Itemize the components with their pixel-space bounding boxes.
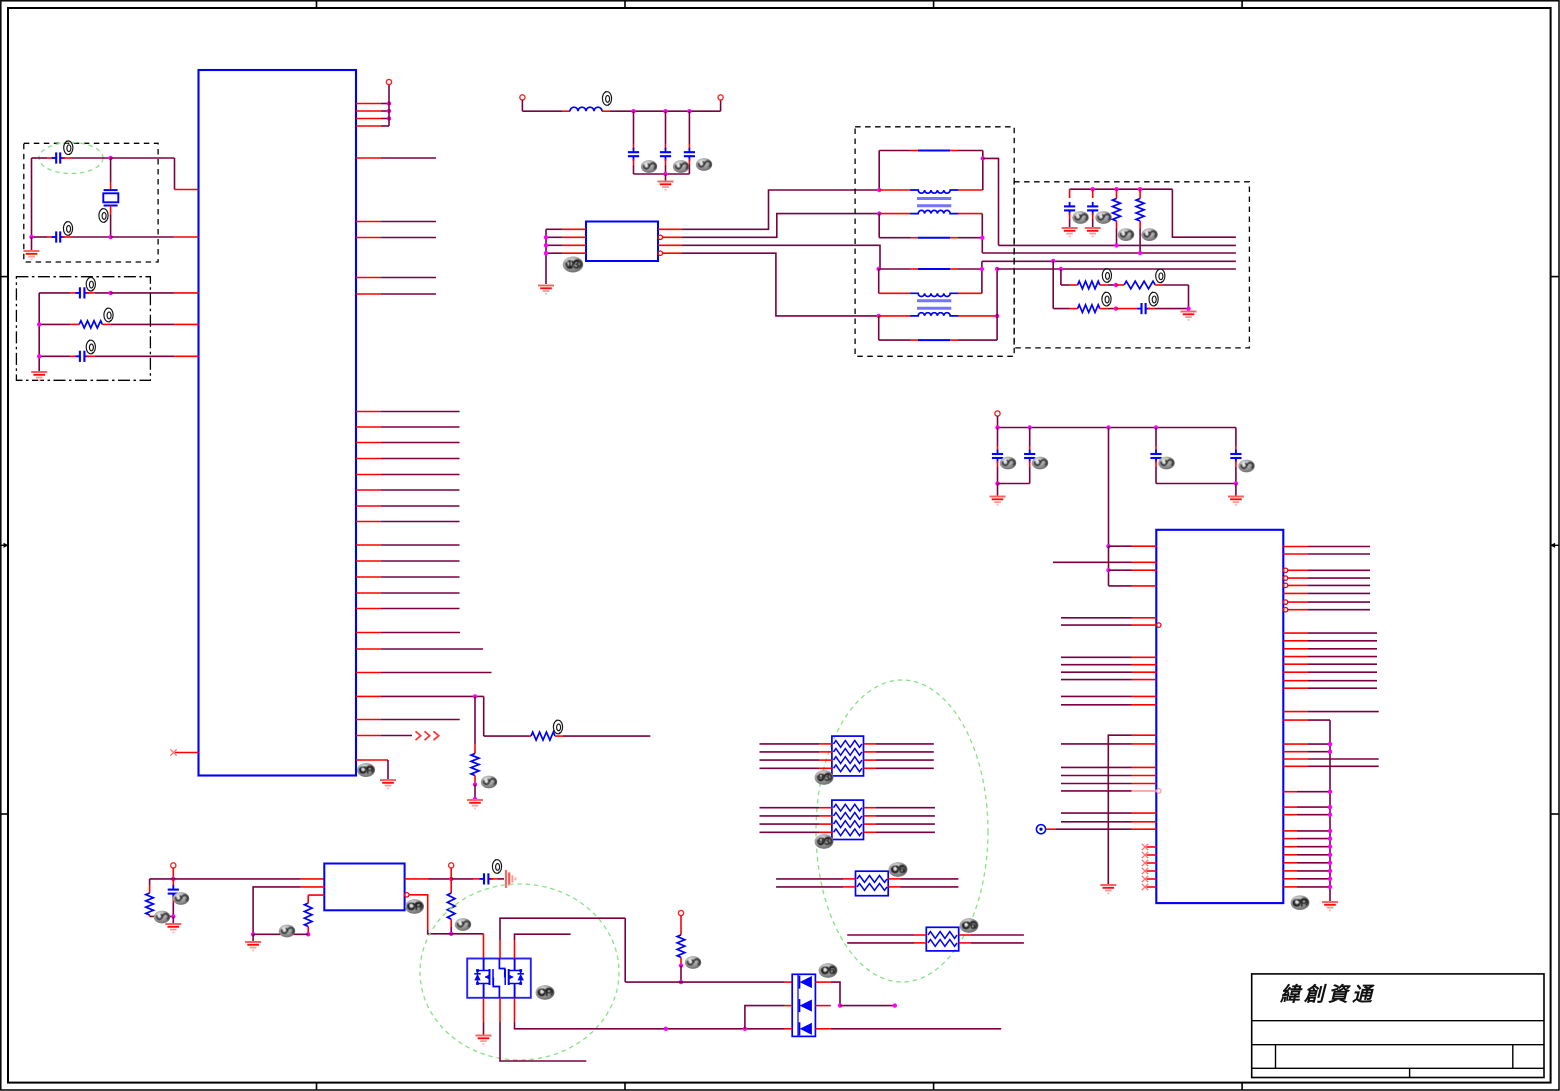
capacitor C3 (75, 287, 89, 298)
border zone ticks top (316, 1, 318, 8)
label U13 (563, 257, 584, 273)
U1 left pin row2 (158, 236, 174, 238)
U1 bottom ground pin (356, 759, 388, 761)
U13 out pin3 wire to T2 winding (658, 244, 682, 246)
label C4 (86, 340, 95, 354)
diode D2 (800, 999, 812, 1012)
U2 pin row 562 wire (1053, 561, 1132, 563)
Q1 source to ground (483, 998, 485, 1022)
label RP1 (815, 770, 834, 785)
node cap1 tap (631, 109, 635, 113)
U2 pin 735 with ground drop (1108, 735, 1131, 884)
node T1 (171, 877, 175, 881)
T2 bottom loop wire D2 (879, 339, 911, 341)
label C2 (63, 221, 72, 235)
T1 right vertical upper (982, 151, 984, 191)
RP4 elements (928, 932, 957, 939)
U30 pin2 wire to ground (301, 886, 325, 888)
node on pin wire (473, 694, 477, 698)
cap C23 (1235, 428, 1237, 447)
border center arrow right (1550, 543, 1559, 548)
node bus4 start (995, 267, 999, 271)
svg-text:C6: C6 (891, 864, 905, 876)
branch wire from T1 to bus1 (983, 158, 999, 245)
RP1 elements (834, 741, 862, 748)
label D array (819, 963, 838, 978)
U2 left pins 767-783 (1061, 766, 1132, 768)
label C22 (1158, 457, 1174, 470)
terminal P1 (386, 79, 391, 84)
capacitor C4 (75, 351, 89, 362)
node U30 gnd tie (251, 932, 255, 936)
U2 right inverted pins 602/610 (1283, 600, 1287, 604)
inductor L1 (570, 107, 602, 111)
cap C22 (1155, 428, 1157, 447)
label R (481, 776, 497, 789)
resistor pack RP4 box (926, 927, 958, 951)
drive wire mid vertical (500, 918, 625, 940)
rail nodes (995, 425, 999, 429)
output cap C31 (451, 878, 473, 880)
cap C10 (1069, 189, 1071, 198)
node R22 bottom (449, 932, 453, 936)
ground mosfet (476, 1036, 492, 1044)
svg-text:CP: CP (359, 766, 374, 777)
bus wire 2 from T1 (982, 252, 1236, 254)
Q mid below (499, 998, 501, 1022)
label R22 (455, 918, 471, 931)
resistor R20 vertical (149, 879, 151, 885)
cap C21 (1029, 428, 1031, 447)
U13 out pin4 inverted (658, 251, 662, 255)
svg-text:93: 93 (818, 836, 830, 848)
node common rail (663, 172, 667, 176)
U1 pin wire with junction to R pulldown (356, 695, 381, 697)
label CP mosfet (536, 985, 555, 1000)
U30 pin3 wire to R21 (308, 894, 324, 896)
node T2 C2 right (995, 314, 999, 318)
crystal box row2 wire (32, 236, 48, 238)
capacitor C1 (52, 152, 65, 163)
RP2 elements (834, 804, 862, 811)
crystal Y1 leads (110, 158, 112, 182)
label CP U1 (357, 763, 375, 777)
U2 right bottom group to rail (1283, 791, 1297, 793)
resistor pack RP3 box (856, 871, 889, 896)
node T1 C1 left (877, 211, 881, 215)
terminal T3 (678, 910, 683, 915)
ground C10 (1062, 228, 1078, 236)
row1 right wire (815, 981, 830, 983)
U1 left pin from crystal row1 (jog) (174, 158, 176, 190)
T2 winding C2 (879, 315, 911, 317)
wire jog to series resistor (483, 696, 485, 736)
U2 left pin 791 faded bubble (1061, 790, 1132, 792)
T1 strap A1 (918, 150, 950, 152)
label R11 (1141, 228, 1157, 241)
node below resistor (473, 782, 477, 786)
U1 right pins lower (356, 632, 381, 634)
series resistor R horizontal (531, 732, 555, 740)
cap C5 leg (633, 111, 635, 144)
node cap3 tap (687, 109, 691, 113)
wire vertical to terminal (388, 85, 390, 127)
crystal circuit dashed box (24, 143, 158, 262)
row1 right corner down (1188, 285, 1190, 309)
node R23 bottom (679, 963, 683, 967)
dead-end stub wire (515, 934, 571, 940)
node R10 to bus1 (1114, 243, 1118, 247)
label C12 (1149, 292, 1158, 306)
label R12 (1102, 268, 1111, 282)
node C23 bottom (1234, 481, 1238, 485)
feed bus3 to lower row2 (1052, 261, 1054, 309)
cap C6 leg (665, 111, 667, 144)
T1 right vertical lower (981, 214, 983, 253)
cap C12 horizontal (1137, 303, 1150, 314)
feed bus4 to lower row1 (1060, 269, 1062, 285)
U30 output wire (405, 878, 429, 880)
node feed pin3 (1106, 568, 1110, 572)
gate interconnect (493, 959, 505, 998)
row2 right wire (815, 1005, 830, 1007)
ground termination (1181, 312, 1197, 320)
label R series (553, 720, 562, 734)
U2 left NC pins (1147, 846, 1157, 848)
T1 left vertical upper (878, 151, 880, 191)
node RC row1 (108, 291, 112, 295)
svg-text:C6: C6 (962, 920, 976, 932)
T1 winding B1 (879, 189, 910, 191)
cap C20 (997, 428, 999, 447)
green highlight ellipse packs (816, 680, 988, 982)
node R21 bottom (306, 932, 310, 936)
resistor R pulldown at U1 output (474, 696, 476, 744)
svg-text:CP: CP (407, 901, 422, 913)
border center arrow left (1, 543, 9, 548)
ground below resistor (467, 800, 483, 808)
label R21 (279, 925, 295, 938)
rail nodes (1091, 187, 1095, 191)
resistor R11 (1139, 189, 1141, 198)
diode D3 (800, 1022, 812, 1035)
R21 tie to ground rail (253, 933, 308, 935)
node diode row2 right (838, 1003, 842, 1007)
svg-text:CP: CP (1292, 897, 1307, 909)
T1 winding C1 (879, 213, 910, 215)
diode D1 (800, 976, 812, 989)
Q right below to diode row3 (514, 998, 516, 1022)
node at ground (473, 797, 477, 801)
resistor R2 horizontal (79, 321, 102, 328)
IC U2 body (1156, 530, 1283, 903)
caps bottom tie wire right (1156, 483, 1236, 485)
row3 right wire (831, 1028, 1001, 1030)
U1 pin wire 719 (356, 719, 381, 721)
U2 left pin group 657-685 (1061, 656, 1132, 658)
node row3 b (743, 1027, 747, 1031)
mosfet pair box Q1 (467, 959, 531, 998)
label C6 (673, 160, 689, 173)
node output (449, 877, 453, 881)
T2 top loop wire A2 (879, 268, 911, 270)
node row2 (108, 235, 112, 239)
node row3 a (664, 1027, 668, 1031)
U2 power pin 1 (1106, 544, 1110, 548)
input rail wire (150, 878, 301, 880)
U1 left NC pin (175, 752, 199, 754)
label R13 (1156, 269, 1165, 283)
T1 core (917, 197, 951, 200)
label C3 (86, 277, 95, 291)
RP2 wires (760, 807, 820, 809)
label RP2 (815, 834, 834, 849)
U2 feed corner pin4 (1109, 585, 1132, 587)
ground collector rail (1322, 902, 1338, 910)
label RP4 (960, 918, 979, 933)
cap C30 (172, 879, 174, 887)
resistor pack RP1 box (832, 736, 864, 776)
label C30 (173, 892, 189, 905)
ground RC box (31, 372, 47, 380)
T2 right vertical (996, 269, 998, 340)
label R20 (154, 911, 170, 924)
node C30 bottom (171, 914, 175, 918)
terminal T2 (449, 863, 454, 868)
inverted bubble pin 625 (1157, 623, 1161, 627)
U13 left rail (545, 229, 547, 284)
RC row1 wire (39, 292, 70, 294)
label RP3 (889, 862, 908, 877)
row3 stubs (785, 1028, 793, 1030)
IC U1 body (199, 70, 357, 776)
U1 right pins middle group (356, 411, 381, 413)
green highlight ellipse mosfet area (420, 884, 619, 1060)
U2 pin row 570 (1109, 569, 1132, 571)
U2 right inverted pins (1283, 568, 1287, 572)
label L1 (602, 91, 611, 105)
resistor R10 (1116, 189, 1118, 198)
ground sideways (506, 870, 515, 888)
wire from ring to U2 (1046, 828, 1056, 830)
ground C11 (1085, 228, 1101, 236)
node row2 mid (1114, 306, 1118, 310)
resistor R13 (1124, 281, 1155, 289)
terminal J3 right (720, 100, 722, 111)
label Y1 (99, 208, 108, 222)
U1 left pins from RC box (150, 292, 174, 294)
svg-text:13: 13 (566, 258, 580, 272)
feedback wire (409, 895, 428, 930)
node row2 right (1186, 306, 1190, 310)
node bus3 tap (1051, 259, 1055, 263)
label R14 (1102, 292, 1111, 306)
RC filter dashed box (16, 277, 150, 381)
IC U13 body (586, 222, 658, 262)
U2 right pins 759/766 crossing (1283, 758, 1308, 760)
crystal Y1 body (103, 190, 118, 205)
node T1 D1 right (980, 236, 984, 240)
ground U13 rail (538, 286, 554, 294)
connector ring terminal (1036, 825, 1045, 834)
bus wire 4 (997, 268, 1236, 270)
diode row1 wire (624, 918, 626, 982)
node T1 B1 left (877, 188, 881, 192)
collector rail vertical (1329, 720, 1331, 901)
cap C11 (1092, 189, 1094, 198)
node bus4 tap (1059, 267, 1063, 271)
U2 left pins 813/822 (1061, 812, 1132, 814)
resistor pack RP2 box (832, 800, 864, 839)
T2 strap D2 (918, 339, 950, 341)
mosfet Q1a (483, 959, 485, 998)
label R23 (685, 956, 701, 969)
label C20 (1000, 457, 1016, 470)
row2 left wire (785, 1005, 793, 1007)
ground power left (990, 497, 1006, 505)
termination top rail (1070, 188, 1173, 190)
U2 right pin 720 to collector rail (1283, 719, 1308, 721)
power feed down to U2 (1108, 428, 1110, 547)
T2 strap A2 (918, 268, 950, 270)
RC row3 wire (39, 355, 70, 357)
signal chevrons >>> (416, 731, 439, 740)
lower row2 wire (1053, 308, 1069, 310)
U1 right pins upper singles (356, 157, 381, 159)
R20 bottom tie (150, 915, 174, 917)
caps common rail (634, 173, 690, 175)
border zone ticks bottom (316, 1083, 318, 1090)
label C23 (1238, 460, 1254, 473)
ground under U1 pin (380, 780, 396, 788)
node RC rail row3 (37, 354, 41, 358)
bus wire 3 (982, 260, 1236, 262)
node dots on terminal drop (387, 101, 391, 105)
U13 left pins (562, 228, 586, 230)
left rail of crystal box (31, 158, 33, 237)
gate drive wire (451, 933, 483, 935)
node on diode row1 (679, 980, 683, 984)
RC row2 wire (39, 323, 70, 325)
label CP U30 (405, 899, 424, 914)
node RC rail row2 (37, 322, 41, 326)
green highlight ellipse on C1 (39, 143, 103, 174)
label R2 (104, 308, 113, 322)
T1 bottom loop wire D1 (879, 237, 910, 239)
svg-text:C6: C6 (821, 965, 835, 977)
T1 strap D1 (918, 237, 950, 239)
U2 left pin 744 (1061, 743, 1132, 745)
ground U30 (245, 942, 261, 950)
magnetics dashed box (855, 127, 1014, 356)
node T2 A2 left (877, 267, 881, 271)
resistor R22 on output (450, 879, 452, 893)
cap C7 leg (688, 111, 690, 144)
RC box left rail (38, 293, 40, 371)
label R10 (1118, 228, 1134, 241)
U30 feedback pin inverted (405, 893, 409, 897)
capacitor C2 (52, 231, 65, 242)
resistor R14 (1078, 305, 1100, 313)
U2 right pins 744/752 (1283, 743, 1308, 745)
U2 left pins 696/705 (1061, 695, 1132, 697)
U13 out pin2 inverted (658, 235, 662, 239)
title block row lines (1252, 1021, 1544, 1078)
IC U30 body (324, 864, 404, 911)
T2 left vertical lower (878, 316, 880, 340)
power rail wire (998, 427, 1236, 429)
label C7 (696, 158, 712, 171)
U2 right pin 711 (1283, 711, 1308, 713)
U2 right middle group (1283, 632, 1308, 634)
ground crystal box (24, 251, 40, 259)
T2 right vertical upper (981, 261, 983, 293)
label C10 (1072, 211, 1088, 224)
T1 left vertical lower (878, 214, 880, 238)
termination dashed box (1014, 182, 1249, 348)
svg-text:CP: CP (537, 987, 552, 999)
ground filter caps (658, 182, 674, 190)
ground C30 (165, 924, 181, 932)
U2 right pins top (1283, 546, 1308, 548)
caps bottom tie wire (998, 483, 1030, 485)
U1 top-right pin stubs to power terminal (356, 103, 381, 105)
lower row1 wire (1061, 284, 1070, 286)
label C21 (1032, 457, 1048, 470)
U2 left pins 617/625 (1061, 617, 1132, 619)
T2 core (917, 299, 951, 302)
resistor R23 (677, 935, 685, 958)
node T1 right branch (981, 156, 985, 160)
label C1 (64, 141, 73, 155)
terminal J2 left (520, 95, 525, 100)
RP3 wires (776, 878, 843, 880)
diode array box (792, 974, 815, 1036)
terminal T1 (171, 863, 176, 868)
RP1 wires (760, 743, 820, 745)
border zone ticks right (1551, 276, 1559, 278)
node row2 end (893, 1003, 897, 1007)
node T2 C2 left (877, 314, 881, 318)
bus wire 1 (999, 244, 1236, 246)
ground power right (1228, 497, 1244, 505)
svg-text:93: 93 (818, 772, 830, 784)
node rail (29, 235, 33, 239)
resistor R21 (304, 903, 312, 926)
RP3 elements (857, 876, 887, 883)
T1 top loop wire A1 (879, 150, 910, 152)
label C11 (1095, 211, 1111, 224)
no-connect x (170, 749, 176, 755)
label C31 (492, 859, 501, 873)
RP4 wires (847, 934, 914, 936)
T2 left vertical upper (878, 269, 880, 293)
title block frame (1252, 974, 1544, 1078)
node row1 mid (1114, 283, 1118, 287)
label C5 (641, 160, 657, 173)
ground U2 left (1100, 885, 1116, 893)
U2 right pin 593 (1283, 592, 1308, 594)
svg-text:緯創資通: 緯創資通 (1279, 983, 1376, 1006)
label CP U2 (1291, 895, 1310, 910)
U1 pin wire to chevrons (356, 735, 381, 737)
rail exit wire (1172, 189, 1236, 237)
U13 out pin1 wire to T1 winding B1 (658, 228, 682, 230)
terminal VCC (995, 411, 1000, 416)
border zone ticks left (1, 276, 8, 278)
node row1 (108, 156, 112, 160)
crystal box row1 wire (32, 157, 48, 159)
